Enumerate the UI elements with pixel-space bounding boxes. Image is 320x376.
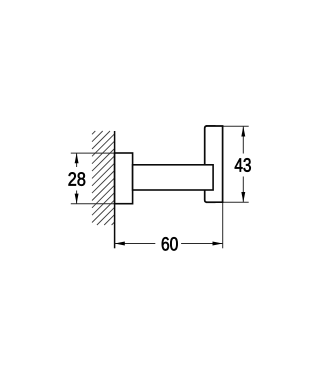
hook arm [133, 165, 214, 190]
dim 28 top extension line [71, 152, 115, 154]
end cap top edge accent [206, 125, 216, 127]
dim 28 down arrow [75, 194, 79, 204]
dim 60 label [162, 237, 178, 251]
dim 28 line [76, 153, 78, 167]
dim 43 up arrow [241, 126, 245, 136]
wall face line [114, 131, 116, 248]
dim 43 bottom extension line [223, 201, 249, 203]
dim 28 up arrow [75, 153, 79, 163]
dim 60 line [115, 243, 156, 245]
end cap bottom edge accent [206, 202, 216, 204]
dim 28 label [69, 172, 86, 186]
dim 43 down arrow [241, 192, 245, 202]
wall hatching [92, 131, 115, 225]
dim 60 left arrow [115, 242, 125, 246]
dim 60 right extension line [222, 202, 224, 248]
mounting plate [115, 153, 133, 204]
dim 43 top extension line [223, 125, 249, 127]
dim 43 label [235, 158, 251, 172]
dim 28 bottom extension line [71, 203, 115, 205]
dim 60 right arrow [213, 242, 223, 246]
dim 43 line [242, 126, 244, 153]
hook end cap [205, 126, 223, 202]
